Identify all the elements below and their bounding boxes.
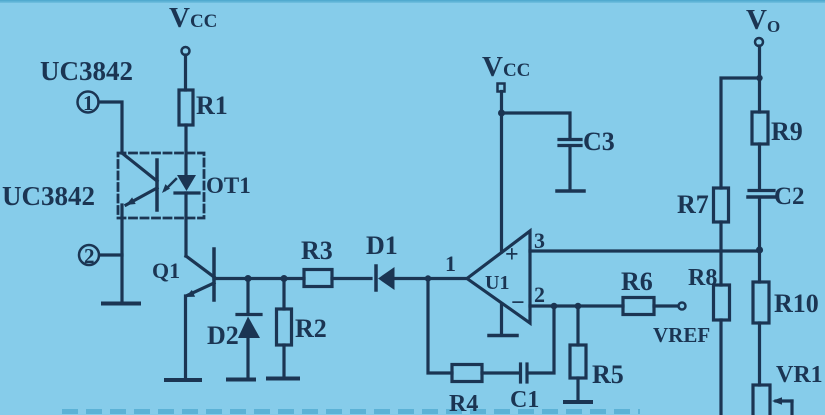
svg-text:2: 2 [534,282,545,307]
op-amp U1 [467,231,530,323]
resistor R8 [714,285,730,320]
svg-text:R3: R3 [301,236,333,265]
node Vcc/C3 [498,110,505,117]
resistor R3 [304,270,332,287]
capacitor C2 [749,189,774,192]
svg-text:R1: R1 [196,91,228,120]
wire pin1 to optocoupler [99,102,122,153]
wire R8 down [719,320,722,415]
resistor R9 [752,112,768,144]
wire R1 to LED anode [184,125,187,175]
resistor R10 [753,282,769,323]
wire pin2 to R6 [530,304,623,307]
wire Q1 base to R3 [214,277,304,280]
svg-text:UC3842: UC3842 [2,181,95,211]
svg-text:+: + [505,242,519,268]
ground (U1) [500,304,503,334]
terminal VREF [679,303,686,310]
wire Vcc to op-amp [500,92,503,253]
svg-text:R6: R6 [621,267,653,296]
svg-text:UC3842: UC3842 [40,56,133,86]
optocoupler OT1 dashed box [118,153,204,218]
optocoupler OT1 phototransistor [155,160,159,210]
wire R4 to C1 [482,371,519,374]
wire R6 to VREF [654,304,678,307]
svg-text:VR1: VR1 [776,362,823,388]
svg-text:U1: U1 [485,272,509,294]
resistor R2 [282,279,285,310]
wire D1 to op-amp [395,277,467,280]
wire R3 to D1 [332,277,371,280]
wire Vo branch to R7 [721,78,760,188]
resistor R1 [179,90,193,125]
svg-text:R8: R8 [688,265,717,291]
svg-text:C2: C2 [774,183,805,210]
svg-text:D1: D1 [366,231,398,260]
svg-text:C3: C3 [583,127,615,156]
potentiometer VR1 [753,385,770,415]
ground (R2) [268,377,298,381]
resistor R5 [576,306,579,345]
node Vo branch [756,75,762,81]
wire R7 to R8 [719,222,722,285]
svg-text:D2: D2 [207,321,239,350]
ground (Q1 emitter) [166,378,200,382]
ground (C3) [557,189,584,193]
resistor R6 [623,298,654,315]
diode D1 [374,266,378,290]
svg-text:2: 2 [84,244,95,268]
diode D2 [246,279,249,315]
svg-text:R9: R9 [771,117,803,146]
ground (R5) [565,400,591,404]
capacitor C1 [519,364,522,382]
wire R9 to C2 [758,144,761,189]
wire R10 to VR1 [758,323,761,385]
wire Q1 emitter to ground [184,296,187,378]
wire LED cathode to Q1 collector [184,193,187,256]
wire Vo down to R9 [758,46,761,112]
svg-text:3: 3 [534,228,545,253]
node pin2/R5 [575,303,582,310]
node pin2/feedback [551,303,558,310]
pin terminal 2 (circled 2) [79,245,99,265]
svg-text:R5: R5 [592,360,624,389]
wire feedback down and across [428,279,452,374]
svg-text:OT1: OT1 [206,173,251,198]
wire phototransistor emitter down [120,205,123,301]
wire pin2 to emitter line [100,253,123,256]
node feedback junction [425,275,431,281]
potentiometer VR1 wiper arrow [776,399,792,402]
node D2 junction [245,275,252,282]
resistor R4 [452,365,482,382]
svg-text:R2: R2 [295,314,327,343]
ground (left pin2) [103,302,139,306]
svg-text:C1: C1 [510,387,539,413]
node C2/R10/pin3 [756,246,763,253]
capacitor C3 [559,138,581,141]
optocoupler light arrow [165,179,176,190]
wire Vcc to R1 [184,55,187,90]
wire pin3 to right column [530,249,760,252]
svg-text:1: 1 [83,91,94,115]
svg-text:R10: R10 [774,289,819,318]
ground (D2) [228,378,254,382]
wire node to R10 [758,250,761,282]
pin terminal 1 (circled 1) [78,92,99,113]
svg-text:VREF: VREF [653,323,710,347]
wire to C3 [502,113,571,138]
wire C1 up to pin2 [528,306,554,373]
wire C2 to node [758,198,761,250]
node R2 junction [281,275,288,282]
svg-text:−: − [511,290,525,316]
svg-text:R4: R4 [449,391,478,415]
transistor Q1 [212,249,216,300]
resistor R7 [714,188,729,222]
optocoupler OT1 LED [177,175,196,191]
svg-text:1: 1 [445,251,456,276]
svg-text:R7: R7 [677,190,709,219]
svg-text:Q1: Q1 [152,258,180,283]
